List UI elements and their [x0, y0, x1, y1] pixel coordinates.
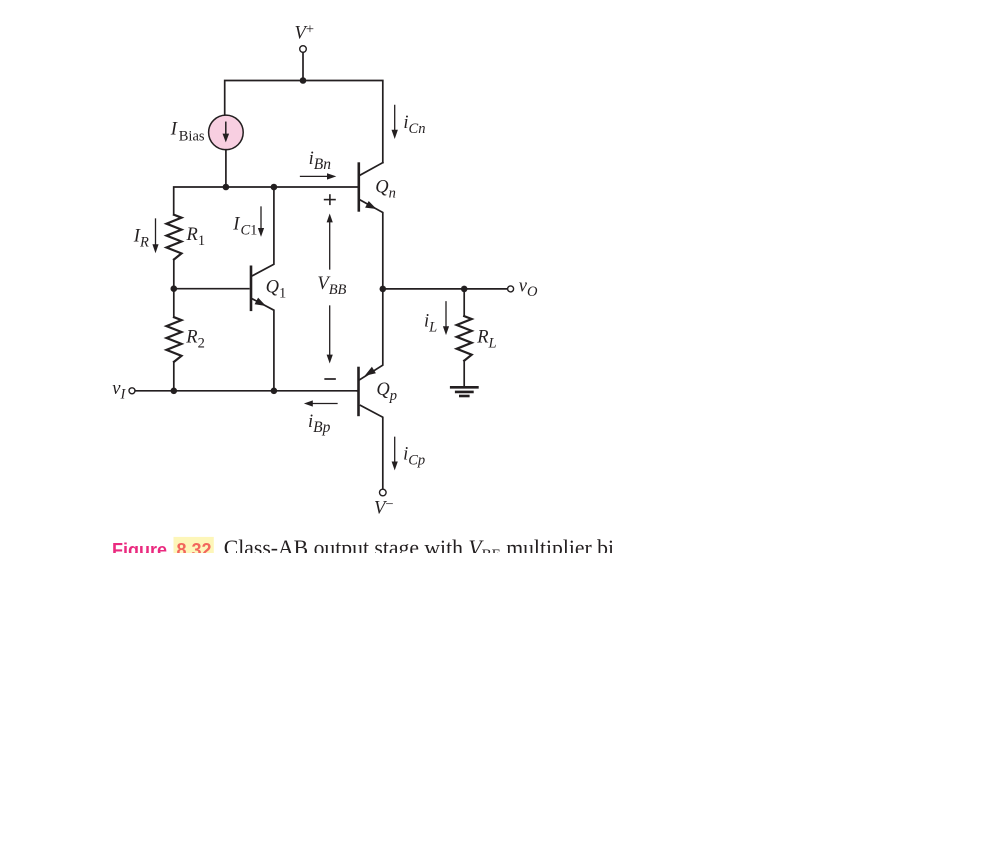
current arrow iBn — [301, 173, 337, 179]
wire output to RL — [463, 289, 465, 316]
label iBp — [308, 412, 331, 436]
wire output rail — [383, 288, 508, 290]
wire R2 to vI rail — [173, 362, 175, 391]
label IBias — [170, 120, 205, 145]
label V+ — [295, 21, 315, 43]
svg-text:IR: IR — [133, 227, 149, 251]
svg-text:IC1: IC1 — [232, 214, 257, 238]
caption Figure 8.32 — [112, 540, 212, 560]
transistor Qn — [359, 163, 383, 289]
svg-text:iCp: iCp — [403, 444, 425, 468]
svg-text:vO: vO — [519, 277, 538, 301]
label Q1 — [266, 277, 287, 301]
svg-text:vI: vI — [112, 379, 126, 403]
svg-text:iCn: iCn — [403, 113, 425, 137]
junction output at RL — [461, 286, 468, 293]
resistor R1 — [167, 215, 182, 260]
label RL — [476, 327, 496, 351]
label iCp — [403, 444, 425, 468]
minus sign — [325, 378, 335, 380]
transistor Qp — [359, 289, 383, 489]
label V- — [374, 497, 394, 519]
label iL — [424, 312, 437, 336]
node A junction (R1/R2/Q1 base) — [171, 285, 178, 292]
svg-text:Qn: Qn — [375, 177, 396, 201]
label IC1 — [232, 214, 257, 238]
voltage arrow VBB down — [327, 306, 333, 364]
svg-text:R2: R2 — [185, 327, 205, 351]
junction base rail at Q1 collector — [271, 184, 278, 191]
ground — [451, 387, 477, 396]
wire base rail — [174, 187, 358, 215]
svg-text:RL: RL — [476, 327, 496, 351]
label iCn — [403, 113, 425, 137]
label iBn — [309, 149, 332, 173]
label vI — [112, 379, 126, 403]
caption text — [224, 536, 614, 563]
svg-text:iL: iL — [424, 312, 437, 336]
current arrow iCn — [392, 105, 398, 139]
wire IBias to base rail — [225, 150, 227, 187]
current source IBias — [209, 115, 244, 150]
svg-text:Q1: Q1 — [266, 277, 287, 301]
node vO terminal — [508, 286, 514, 292]
node V- terminal — [380, 489, 387, 496]
resistor RL — [457, 316, 472, 361]
svg-text:iBn: iBn — [309, 149, 332, 173]
junction top rail at V+ — [300, 77, 307, 84]
wire RL to ground — [463, 361, 465, 388]
node vI terminal — [129, 388, 135, 394]
svg-text:R1: R1 — [186, 225, 206, 249]
label Qp — [376, 380, 397, 404]
current arrow iCp — [392, 437, 398, 470]
caption clip mask — [0, 553, 1006, 842]
label Qn — [375, 177, 396, 201]
node V+ terminal — [300, 46, 307, 53]
label IR — [133, 227, 149, 251]
wire top rail — [225, 81, 383, 163]
junction base rail at IBias — [223, 184, 230, 191]
transistor Q1 — [251, 187, 274, 391]
svg-text:VBB: VBB — [317, 274, 346, 298]
label vO — [519, 277, 538, 301]
current arrow IR — [152, 219, 158, 253]
label R1 — [186, 225, 206, 249]
wire Q1 base — [174, 288, 249, 290]
svg-text:IBias: IBias — [170, 120, 205, 145]
wire vI rail — [135, 390, 357, 392]
junction vI rail at Q1 emitter — [271, 388, 278, 395]
resistor R2 — [167, 317, 182, 362]
label R2 — [185, 327, 205, 351]
svg-text:Qp: Qp — [376, 380, 397, 404]
wire Qp base stub — [356, 390, 358, 392]
wire V+ terminal to top rail — [302, 52, 304, 80]
current arrow IC1 — [258, 207, 264, 237]
label VBB — [317, 274, 346, 298]
svg-text:iBp: iBp — [308, 412, 331, 436]
svg-text:V−: V− — [374, 497, 394, 519]
voltage arrow VBB up — [327, 214, 333, 270]
wire node A to R2 — [173, 289, 175, 318]
caption highlight — [174, 537, 214, 562]
svg-text:V+: V+ — [295, 21, 315, 43]
junction vI rail at R2 — [171, 388, 178, 395]
wire R1 to node A — [173, 259, 175, 288]
current arrow iL — [443, 302, 449, 335]
plus sign — [325, 195, 335, 204]
junction output node — [380, 286, 387, 293]
current arrow iBp — [304, 400, 337, 406]
